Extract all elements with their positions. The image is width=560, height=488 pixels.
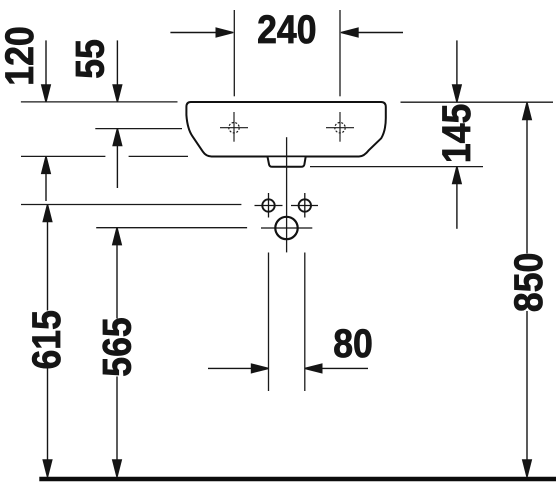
svg-text:145: 145	[435, 104, 479, 163]
wire 80 extension right	[304, 253, 306, 392]
faucet hole right (dashed circle + crosshair)	[326, 112, 354, 142]
dimension 55 arrows	[113, 40, 122, 188]
wire rim reference line left	[21, 101, 178, 103]
wire 120-level line right part	[129, 155, 188, 157]
wire 565-level line	[96, 227, 247, 229]
faucet hole left (dashed circle + crosshair)	[220, 112, 248, 142]
svg-text:55: 55	[68, 39, 112, 79]
svg-text:120: 120	[0, 26, 43, 85]
wire 615-level line	[21, 204, 241, 206]
svg-text:615: 615	[25, 310, 69, 369]
dimension 145 arrows	[453, 40, 462, 228]
svg-text:850: 850	[507, 253, 551, 312]
wire 240 leader right	[339, 10, 341, 96]
wire 120-level line left part	[21, 155, 105, 157]
wire 80 extension left	[268, 253, 270, 392]
dimension 615 arrows	[43, 205, 52, 478]
svg-text:240: 240	[257, 8, 316, 52]
wire 55-level line	[95, 128, 182, 130]
svg-text:565: 565	[95, 317, 139, 376]
mounting hole left small circle	[255, 193, 283, 218]
mounting hole right small circle	[291, 193, 318, 218]
wire 240 leader left	[233, 10, 235, 96]
drain outlet	[268, 157, 306, 167]
dimension 240 arrows	[170, 28, 403, 37]
drain hole large circle	[261, 217, 312, 239]
dimension 120 arrows	[42, 40, 51, 201]
dimension 80 arrows	[208, 364, 368, 373]
floor line	[39, 477, 556, 482]
washbasin outline	[186, 102, 385, 157]
dimension 850 arrows	[523, 103, 532, 478]
dimension 565 arrows	[113, 228, 122, 477]
wire 145-level line	[310, 166, 483, 168]
svg-text:80: 80	[333, 322, 373, 366]
wire rim reference line right	[401, 101, 554, 103]
wire vertical center line	[286, 137, 288, 252]
